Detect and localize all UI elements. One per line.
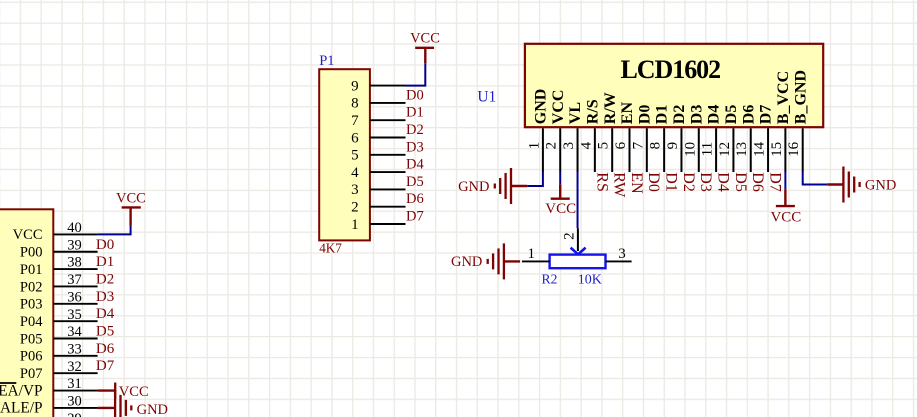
svg-text:P01: P01	[20, 262, 43, 278]
svg-text:R/S: R/S	[584, 99, 601, 124]
svg-text:D1: D1	[96, 254, 114, 270]
svg-text:4: 4	[578, 141, 594, 149]
svg-text:4K7: 4K7	[319, 241, 342, 256]
svg-text:D0: D0	[636, 105, 653, 125]
svg-text:D4: D4	[96, 306, 115, 322]
svg-text:D0: D0	[406, 87, 424, 103]
svg-text:14: 14	[752, 141, 768, 157]
svg-text:3: 3	[561, 142, 577, 150]
svg-text:35: 35	[67, 307, 82, 323]
svg-text:D3: D3	[406, 139, 424, 155]
svg-text:10: 10	[682, 142, 698, 157]
svg-text:RW: RW	[611, 172, 628, 198]
svg-text:7: 7	[351, 113, 359, 129]
svg-text:P02: P02	[20, 279, 43, 295]
svg-text:5: 5	[351, 148, 359, 164]
svg-text:39: 39	[67, 237, 82, 253]
svg-text:5: 5	[596, 142, 612, 150]
svg-text:GND: GND	[865, 177, 896, 193]
svg-text:LCD1602: LCD1602	[621, 55, 721, 84]
svg-text:2: 2	[561, 232, 577, 240]
svg-text:D6: D6	[406, 191, 424, 207]
svg-text:VCC: VCC	[119, 384, 149, 400]
svg-text:40: 40	[67, 220, 82, 236]
svg-text:D6: D6	[740, 105, 757, 125]
svg-text:R/W: R/W	[602, 92, 619, 124]
svg-text:B_GND: B_GND	[792, 70, 809, 124]
svg-text:D3: D3	[688, 105, 705, 125]
svg-text:37: 37	[67, 272, 82, 288]
svg-text:10K: 10K	[578, 273, 602, 288]
svg-text:D7: D7	[758, 105, 775, 125]
svg-text:D1: D1	[663, 172, 680, 192]
svg-text:33: 33	[67, 341, 82, 357]
svg-text:D7: D7	[766, 172, 783, 192]
svg-text:38: 38	[67, 255, 82, 271]
svg-text:D7: D7	[96, 358, 115, 374]
svg-text:EN: EN	[619, 102, 636, 125]
svg-text:D5: D5	[96, 324, 114, 340]
svg-text:D6: D6	[96, 341, 115, 357]
svg-text:P06: P06	[20, 349, 43, 365]
svg-text:29: 29	[67, 411, 82, 417]
svg-text:8: 8	[648, 142, 664, 150]
svg-text:P03: P03	[20, 297, 43, 313]
svg-text:P04: P04	[20, 314, 43, 330]
svg-text:D4: D4	[706, 105, 723, 125]
svg-text:D1: D1	[406, 105, 424, 121]
svg-text:31: 31	[67, 376, 82, 392]
svg-text:GND: GND	[458, 179, 489, 195]
svg-text:1: 1	[351, 217, 359, 233]
svg-text:6: 6	[351, 130, 359, 146]
svg-text:1: 1	[528, 246, 536, 262]
svg-text:VCC: VCC	[13, 227, 43, 243]
svg-text:2: 2	[544, 142, 560, 150]
svg-text:D5: D5	[406, 174, 424, 190]
svg-text:4: 4	[351, 165, 359, 181]
svg-text:U1: U1	[477, 88, 496, 105]
svg-text:GND: GND	[137, 402, 168, 417]
svg-text:34: 34	[67, 324, 82, 340]
svg-text:P1: P1	[319, 53, 334, 69]
svg-text:VCC: VCC	[550, 90, 567, 125]
svg-text:D1: D1	[654, 105, 671, 125]
svg-text:P07: P07	[20, 366, 43, 382]
svg-text:GND: GND	[451, 254, 482, 270]
svg-text:D3: D3	[96, 289, 114, 305]
svg-text:P05: P05	[20, 331, 43, 347]
svg-text:6: 6	[613, 141, 629, 149]
svg-text:12: 12	[717, 142, 733, 157]
svg-text:11: 11	[700, 142, 716, 156]
svg-text:13: 13	[734, 142, 750, 157]
svg-text:1: 1	[526, 142, 542, 150]
svg-text:D2: D2	[680, 172, 697, 192]
svg-text:D4: D4	[715, 172, 732, 192]
svg-text:16: 16	[786, 141, 802, 157]
svg-text:D2: D2	[406, 122, 424, 138]
svg-text:GND: GND	[533, 89, 550, 125]
svg-text:RS: RS	[593, 172, 610, 192]
svg-text:VCC: VCC	[410, 31, 440, 47]
svg-text:EA/VP: EA/VP	[0, 382, 43, 399]
svg-text:VL: VL	[567, 102, 584, 124]
svg-text:P00: P00	[20, 245, 43, 261]
svg-text:D2: D2	[96, 271, 114, 287]
svg-text:9: 9	[351, 78, 359, 94]
svg-text:D2: D2	[671, 105, 688, 125]
svg-text:D6: D6	[749, 172, 766, 192]
svg-text:7: 7	[630, 141, 646, 149]
svg-text:EN: EN	[628, 172, 645, 194]
svg-text:36: 36	[67, 289, 82, 305]
svg-text:9: 9	[665, 142, 681, 150]
svg-text:8: 8	[351, 96, 359, 112]
svg-text:R2: R2	[542, 272, 558, 287]
svg-text:32: 32	[67, 359, 82, 375]
svg-text:VCC: VCC	[770, 209, 801, 225]
svg-text:D7: D7	[406, 209, 424, 225]
svg-text:B_VCC: B_VCC	[775, 71, 792, 124]
svg-text:D0: D0	[96, 237, 114, 253]
svg-text:VCC: VCC	[545, 201, 576, 217]
svg-text:D5: D5	[732, 172, 749, 192]
svg-text:D0: D0	[645, 172, 662, 192]
svg-text:2: 2	[351, 200, 359, 216]
svg-text:15: 15	[769, 142, 785, 157]
svg-text:ALE/P: ALE/P	[0, 400, 43, 417]
svg-text:VCC: VCC	[116, 191, 146, 207]
svg-text:3: 3	[618, 246, 626, 262]
svg-text:D5: D5	[723, 105, 740, 125]
svg-text:3: 3	[351, 182, 359, 198]
svg-text:D3: D3	[697, 172, 714, 192]
svg-text:30: 30	[67, 394, 82, 410]
svg-text:D4: D4	[406, 157, 424, 173]
